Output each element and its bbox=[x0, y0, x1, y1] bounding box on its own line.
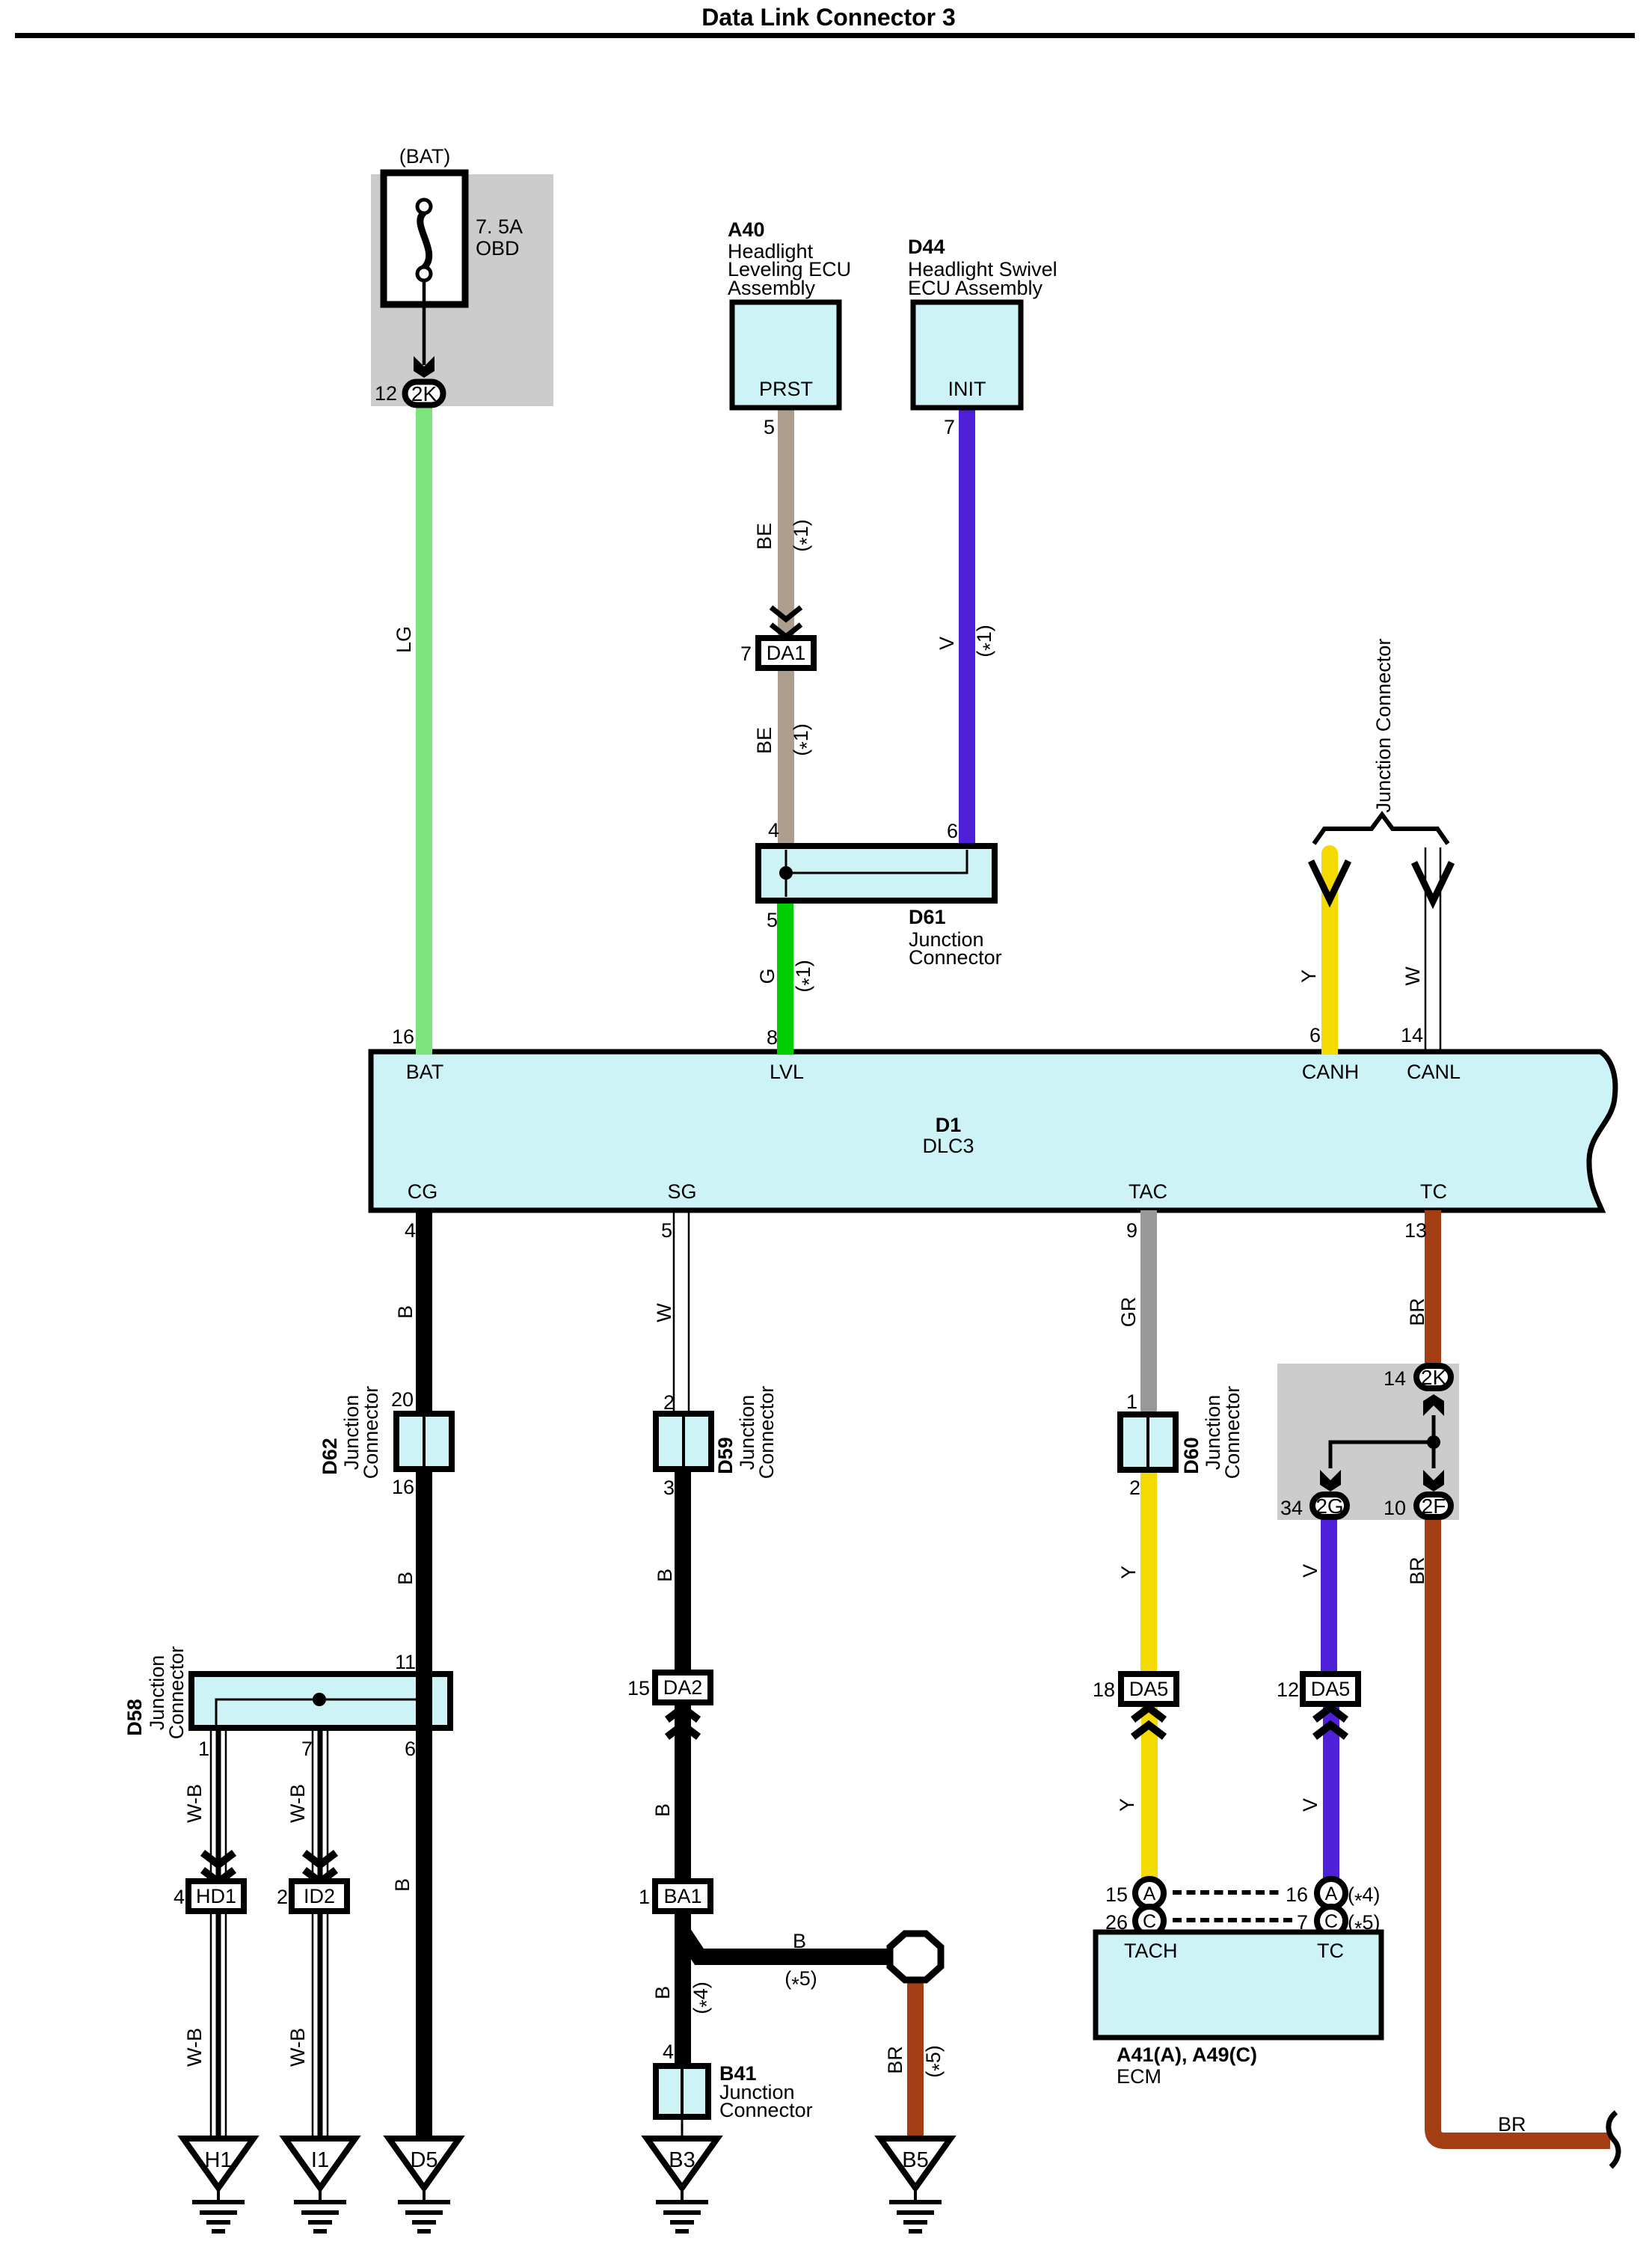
arrow up into 2K bbox=[1423, 1394, 1444, 1416]
wire B: D59 pin 3 to DA2 pin 15 bbox=[675, 1467, 691, 1676]
svg-text:20: 20 bbox=[391, 1388, 414, 1411]
svg-text:16: 16 bbox=[392, 1026, 414, 1048]
svg-text:2K: 2K bbox=[411, 382, 437, 405]
connector 2K pin 12 bbox=[405, 382, 443, 405]
connector BA1 pin 1 bbox=[655, 1881, 710, 1911]
wire Y: D60 pin 2 to DA5 pin 18 bbox=[1140, 1466, 1157, 1676]
ground B3 bbox=[647, 2139, 717, 2188]
connector 2F pin 10 bbox=[1416, 1495, 1451, 1517]
ECM pin 15 circle A bbox=[1135, 1879, 1164, 1907]
svg-text:Y: Y bbox=[1116, 1798, 1138, 1812]
svg-text:B5: B5 bbox=[902, 2148, 928, 2172]
svg-text:INIT: INIT bbox=[948, 378, 986, 400]
svg-text:Y: Y bbox=[1298, 969, 1320, 983]
svg-text:TC: TC bbox=[1317, 1940, 1344, 1962]
wire from B41 to ground B3 bbox=[681, 2117, 684, 2139]
arrow on Y stub bbox=[1311, 861, 1348, 900]
svg-text:BR: BR bbox=[1406, 1557, 1428, 1585]
junction connector D61 bbox=[758, 846, 995, 901]
svg-text:B: B bbox=[391, 1878, 414, 1892]
svg-text:16: 16 bbox=[392, 1476, 414, 1498]
svg-text:15: 15 bbox=[627, 1677, 650, 1699]
svg-text:1: 1 bbox=[639, 1886, 650, 1908]
svg-text:BR: BR bbox=[884, 2046, 906, 2074]
ground H1 bbox=[183, 2139, 254, 2188]
svg-text:PRST: PRST bbox=[759, 378, 813, 400]
svg-text:Connector: Connector bbox=[719, 2099, 813, 2121]
svg-text:2G: 2G bbox=[1315, 1495, 1343, 1518]
svg-text:B3: B3 bbox=[669, 2148, 695, 2172]
svg-text:W-B: W-B bbox=[286, 1784, 309, 1823]
wire from fuse to 2K bbox=[423, 280, 426, 365]
arrow into HD1 bbox=[203, 1853, 234, 1865]
svg-text:C: C bbox=[1143, 1911, 1156, 1932]
arrow down into 2G bbox=[1320, 1470, 1341, 1492]
svg-text:W: W bbox=[1401, 966, 1424, 986]
svg-text:4: 4 bbox=[768, 819, 779, 841]
ground D5 bbox=[389, 2139, 459, 2188]
grey panel (fuse area) bbox=[371, 174, 553, 406]
svg-text:D44: D44 bbox=[908, 236, 945, 258]
svg-text:B: B bbox=[654, 1569, 676, 1582]
arrow down into 2F bbox=[1423, 1470, 1444, 1492]
arrow into 2K bbox=[414, 356, 435, 378]
svg-text:Connector: Connector bbox=[360, 1386, 382, 1480]
svg-text:Connector: Connector bbox=[165, 1646, 188, 1740]
svg-text:B: B bbox=[651, 1986, 674, 1999]
wire V: D44 INIT pin 7 to D61 pin 6 bbox=[959, 408, 975, 849]
grey panel (2K/2G/2F jumper area) bbox=[1277, 1364, 1459, 1520]
svg-text:6: 6 bbox=[405, 1738, 416, 1760]
svg-text:B: B bbox=[793, 1930, 806, 1952]
svg-text:ECU Assembly: ECU Assembly bbox=[908, 277, 1043, 299]
connector DA5 pin 12 bbox=[1303, 1674, 1358, 1704]
svg-text:15: 15 bbox=[1105, 1883, 1128, 1906]
connector DA1 pin 7 bbox=[758, 638, 814, 668]
svg-text:ECM: ECM bbox=[1117, 2065, 1161, 2088]
connector DA2 pin 15 bbox=[655, 1673, 710, 1702]
wire BE: A40 PRST pin 5 to D61 pin 4 bbox=[778, 408, 794, 849]
svg-text:Connector: Connector bbox=[755, 1386, 778, 1480]
svg-text:D5: D5 bbox=[410, 2148, 437, 2172]
svg-text:LVL: LVL bbox=[770, 1061, 804, 1083]
wire V: 2G connector to DA5 pin 12 bbox=[1321, 1518, 1337, 1676]
svg-text:D58: D58 bbox=[123, 1699, 146, 1736]
dashed link C-C bbox=[1173, 1918, 1293, 1922]
svg-text:V: V bbox=[936, 637, 958, 650]
svg-text:D62: D62 bbox=[319, 1438, 341, 1475]
svg-text:5: 5 bbox=[661, 1219, 672, 1242]
svg-text:14: 14 bbox=[1384, 1367, 1406, 1390]
svg-text:CANH: CANH bbox=[1302, 1061, 1360, 1083]
wire B: D1 CG pin 4 through D62/D58 to ground D5 bbox=[416, 1210, 432, 2139]
svg-text:W-B: W-B bbox=[286, 2028, 309, 2067]
svg-text:B: B bbox=[394, 1305, 417, 1319]
svg-text:V: V bbox=[1299, 1798, 1321, 1812]
svg-text:CANL: CANL bbox=[1407, 1061, 1461, 1083]
junction connector D62 bbox=[396, 1414, 452, 1469]
connector 2K pin 14 bbox=[1416, 1366, 1451, 1388]
svg-text:11: 11 bbox=[395, 1651, 416, 1673]
svg-text:B: B bbox=[651, 1803, 674, 1817]
svg-text:TC: TC bbox=[1420, 1180, 1447, 1203]
svg-text:D59: D59 bbox=[714, 1437, 737, 1474]
ECM pin 7 circle C (*5) bbox=[1317, 1907, 1345, 1935]
svg-text:1: 1 bbox=[1126, 1391, 1137, 1413]
svg-text:5: 5 bbox=[764, 416, 775, 438]
wire W-B: HD1 to ground H1 bbox=[210, 1908, 212, 2139]
svg-text:A40: A40 bbox=[728, 218, 765, 241]
svg-text:2: 2 bbox=[277, 1886, 288, 1908]
svg-text:H1: H1 bbox=[204, 2148, 232, 2172]
svg-text:6: 6 bbox=[947, 820, 958, 842]
svg-text:BE: BE bbox=[753, 727, 776, 754]
svg-text:13: 13 bbox=[1404, 1219, 1427, 1242]
jumper wires inside grey panel bbox=[1432, 1415, 1436, 1468]
arrow out of DA5 (right) bbox=[1315, 1708, 1346, 1720]
svg-text:BAT: BAT bbox=[406, 1061, 444, 1083]
svg-text:D61: D61 bbox=[909, 906, 946, 928]
wire BR: D1 TC pin 13 to 2K connector bbox=[1425, 1210, 1441, 1366]
svg-text:TACH: TACH bbox=[1124, 1940, 1178, 1962]
svg-text:Assembly: Assembly bbox=[728, 277, 816, 299]
svg-text:8: 8 bbox=[767, 1026, 778, 1049]
arrow out of DA2 bbox=[667, 1708, 698, 1720]
svg-text:DA5: DA5 bbox=[1129, 1678, 1169, 1700]
svg-text:OBD: OBD bbox=[476, 237, 520, 260]
svg-text:LG: LG bbox=[393, 626, 415, 653]
svg-text:12: 12 bbox=[375, 382, 397, 405]
svg-text:DA1: DA1 bbox=[767, 642, 806, 664]
svg-text:ID2: ID2 bbox=[304, 1885, 335, 1907]
svg-text:W-B: W-B bbox=[183, 2028, 206, 2067]
svg-text:A41(A), A49(C): A41(A), A49(C) bbox=[1117, 2044, 1257, 2066]
svg-text:9: 9 bbox=[1126, 1219, 1137, 1242]
svg-text:BE: BE bbox=[753, 523, 776, 550]
svg-text:2: 2 bbox=[663, 1391, 675, 1414]
svg-text:BA1: BA1 bbox=[663, 1885, 701, 1907]
svg-text:I1: I1 bbox=[311, 2148, 329, 2172]
wire W-B: ID2 to ground I1 bbox=[312, 1908, 314, 2139]
svg-text:7: 7 bbox=[740, 643, 752, 665]
svg-text:DA2: DA2 bbox=[663, 1676, 703, 1699]
wire Y: DA5 to ECM TACH pin 15(A) bbox=[1141, 1702, 1158, 1879]
svg-text:4: 4 bbox=[174, 1886, 185, 1908]
wire W-B: D58 pin 7 to ID2 pin 2 bbox=[312, 1728, 314, 1883]
arrow on W stub bbox=[1414, 862, 1452, 901]
svg-text:B: B bbox=[394, 1572, 417, 1585]
component ECM A41(A), A49(C) bbox=[1096, 1932, 1381, 2038]
svg-text:DLC3: DLC3 bbox=[922, 1135, 974, 1157]
arrow into DA1 bbox=[771, 607, 801, 619]
noise filter octagon bbox=[890, 1934, 941, 1980]
svg-text:4: 4 bbox=[405, 1219, 416, 1242]
svg-text:BR: BR bbox=[1406, 1298, 1428, 1326]
svg-text:W: W bbox=[653, 1303, 675, 1322]
svg-text:10: 10 bbox=[1384, 1497, 1406, 1519]
wire BR (*5): octagon to ground B5 bbox=[907, 1978, 924, 2139]
svg-text:2K: 2K bbox=[1421, 1366, 1447, 1389]
svg-text:A: A bbox=[1143, 1883, 1156, 1904]
brace over CANH/CANL stubs bbox=[1314, 815, 1448, 844]
svg-text:5: 5 bbox=[767, 909, 778, 931]
svg-text:C: C bbox=[1324, 1911, 1338, 1932]
svg-text:1: 1 bbox=[198, 1738, 209, 1760]
fuse OBD 7.5A bbox=[384, 173, 465, 304]
continuation squiggle on BR wire bbox=[1609, 2112, 1618, 2167]
ground B5 bbox=[880, 2139, 951, 2188]
svg-text:4: 4 bbox=[663, 2041, 674, 2063]
svg-text:16: 16 bbox=[1286, 1883, 1308, 1906]
svg-text:CG: CG bbox=[408, 1180, 438, 1203]
wire B (*5): branch from BA1 wire to noise filter octagon bbox=[683, 1932, 891, 1957]
wire BR: 2F connector down and right to continuation bbox=[1433, 1518, 1610, 2141]
svg-text:7: 7 bbox=[944, 416, 955, 438]
wire Y: junction connector stub to D1 CANH pin 6 bbox=[1321, 853, 1338, 1055]
svg-text:Junction Connector: Junction Connector bbox=[1372, 639, 1395, 813]
svg-text:TAC: TAC bbox=[1129, 1180, 1167, 1203]
svg-text:2: 2 bbox=[1129, 1477, 1140, 1499]
svg-text:HD1: HD1 bbox=[196, 1885, 236, 1907]
ECM pin 16 circle A (*4) bbox=[1317, 1879, 1345, 1907]
svg-text:A: A bbox=[1325, 1883, 1338, 1904]
svg-text:D1: D1 bbox=[936, 1114, 962, 1136]
svg-text:G: G bbox=[756, 968, 779, 984]
wire B: BA1 down to B41 pin 4 bbox=[675, 1908, 691, 2070]
svg-text:Connector: Connector bbox=[1221, 1386, 1244, 1480]
svg-text:Data Link Connector 3: Data Link Connector 3 bbox=[701, 4, 956, 31]
ground I1 bbox=[285, 2139, 355, 2188]
junction connector D60 bbox=[1120, 1414, 1176, 1470]
svg-text:2F: 2F bbox=[1422, 1495, 1446, 1518]
svg-text:Connector: Connector bbox=[909, 946, 1002, 969]
connector 2G pin 34 bbox=[1312, 1495, 1347, 1517]
svg-text:(BAT): (BAT) bbox=[399, 145, 451, 168]
connector DA5 pin 18 bbox=[1121, 1674, 1176, 1704]
svg-text:Y: Y bbox=[1117, 1566, 1140, 1579]
svg-text:7: 7 bbox=[301, 1738, 313, 1760]
junction connector B41 bbox=[656, 2066, 708, 2117]
svg-text:D60: D60 bbox=[1180, 1437, 1203, 1474]
svg-text:GR: GR bbox=[1117, 1297, 1140, 1328]
svg-text:7. 5A: 7. 5A bbox=[476, 215, 523, 238]
svg-text:DA5: DA5 bbox=[1311, 1678, 1351, 1700]
svg-text:6: 6 bbox=[1309, 1024, 1321, 1046]
wire B: DA2 to BA1 pin 1 bbox=[675, 1702, 691, 1883]
svg-text:34: 34 bbox=[1280, 1497, 1303, 1519]
svg-text:V: V bbox=[1299, 1564, 1321, 1578]
wire W: D1 SG pin 5 to D59 pin 2 bbox=[673, 1210, 675, 1417]
junction connector D59 bbox=[656, 1414, 711, 1469]
svg-text:18: 18 bbox=[1093, 1679, 1115, 1701]
wire B over D58 bbox=[416, 1677, 432, 1725]
arrow into ID2 bbox=[304, 1853, 336, 1865]
svg-text:W-B: W-B bbox=[183, 1784, 206, 1823]
wire G: D61 pin 5 to D1 LVL pin 8 bbox=[777, 898, 793, 1055]
dashed link A-A bbox=[1173, 1890, 1279, 1895]
svg-text:3: 3 bbox=[663, 1477, 675, 1499]
connector D1 DLC3 (box with torn right edge) bbox=[371, 1052, 1615, 1210]
connector ID2 pin 2 bbox=[292, 1881, 347, 1911]
svg-text:SG: SG bbox=[667, 1180, 696, 1203]
junction connector D58 bbox=[191, 1674, 450, 1728]
svg-text:14: 14 bbox=[1401, 1024, 1423, 1046]
wire V: DA5 to ECM TC pin 16(A) bbox=[1323, 1702, 1339, 1879]
wire W: junction connector stub to D1 CANL pin 14 bbox=[1425, 847, 1427, 1052]
wire W-B: D58 pin 1 to HD1 pin 4 bbox=[210, 1728, 212, 1883]
wire LG: fuse 2K to D1 BAT pin 16 bbox=[416, 408, 432, 1055]
svg-text:12: 12 bbox=[1277, 1679, 1299, 1701]
wire GR: D1 TAC pin 9 to D60 pin 1 bbox=[1140, 1210, 1157, 1417]
arrow out of DA5 (left) bbox=[1133, 1708, 1164, 1720]
svg-text:BR: BR bbox=[1498, 2113, 1526, 2136]
ECM pin 26 circle C bbox=[1135, 1907, 1164, 1935]
connector HD1 pin 4 bbox=[188, 1881, 244, 1911]
